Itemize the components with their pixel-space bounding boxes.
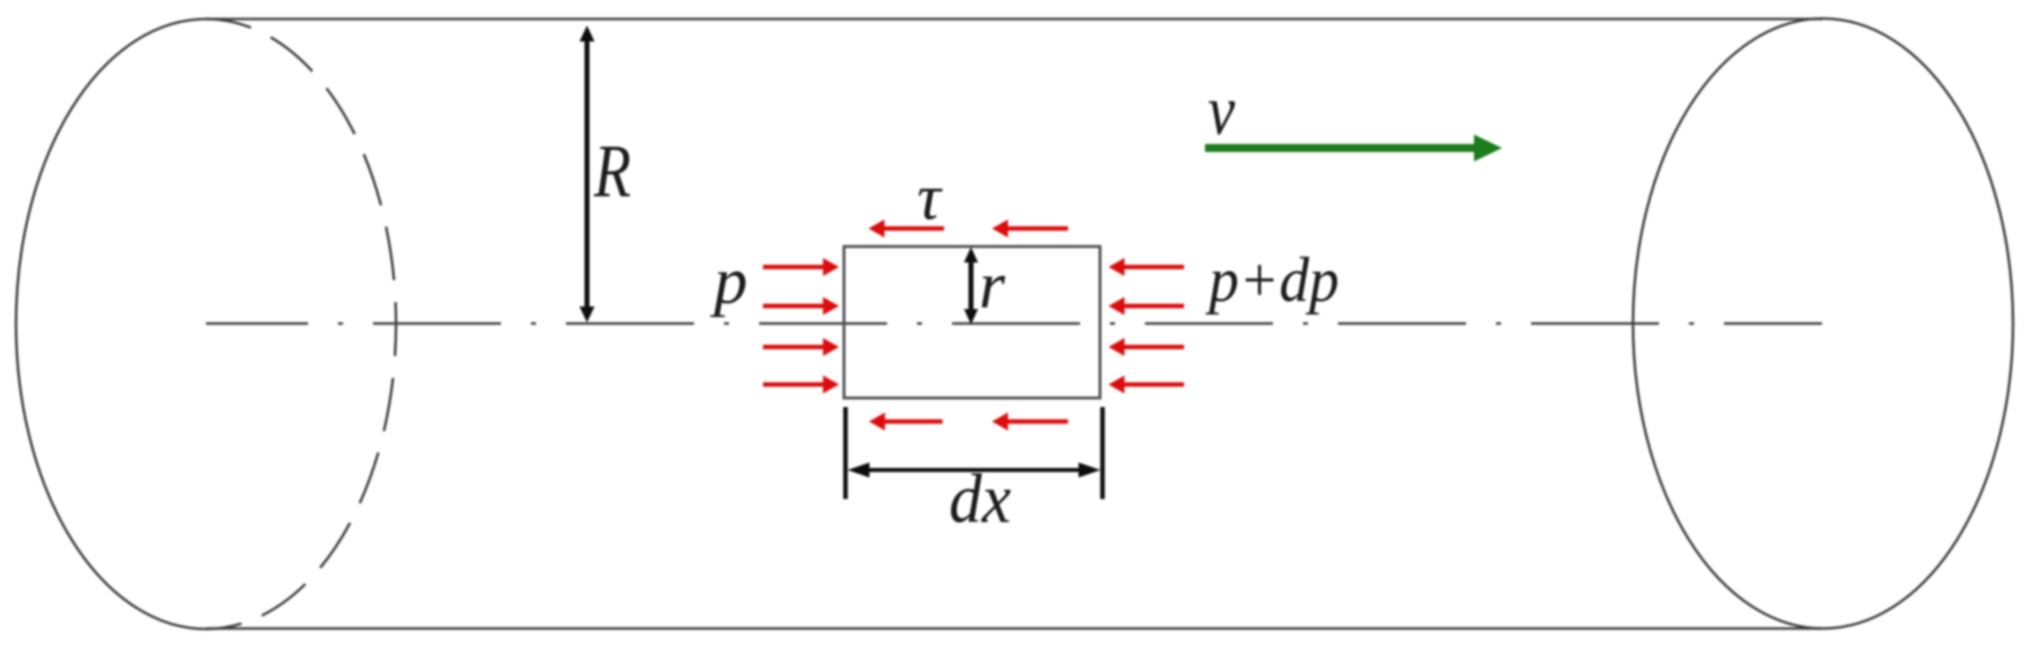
svg-text:τ: τ [917, 161, 943, 234]
svg-text:r: r [979, 249, 1006, 323]
svg-text:R: R [593, 130, 631, 213]
svg-text:v: v [1208, 72, 1235, 150]
svg-text:dx: dx [949, 461, 1011, 538]
svg-text:p+dp: p+dp [1205, 244, 1339, 315]
svg-text:p: p [710, 244, 748, 318]
